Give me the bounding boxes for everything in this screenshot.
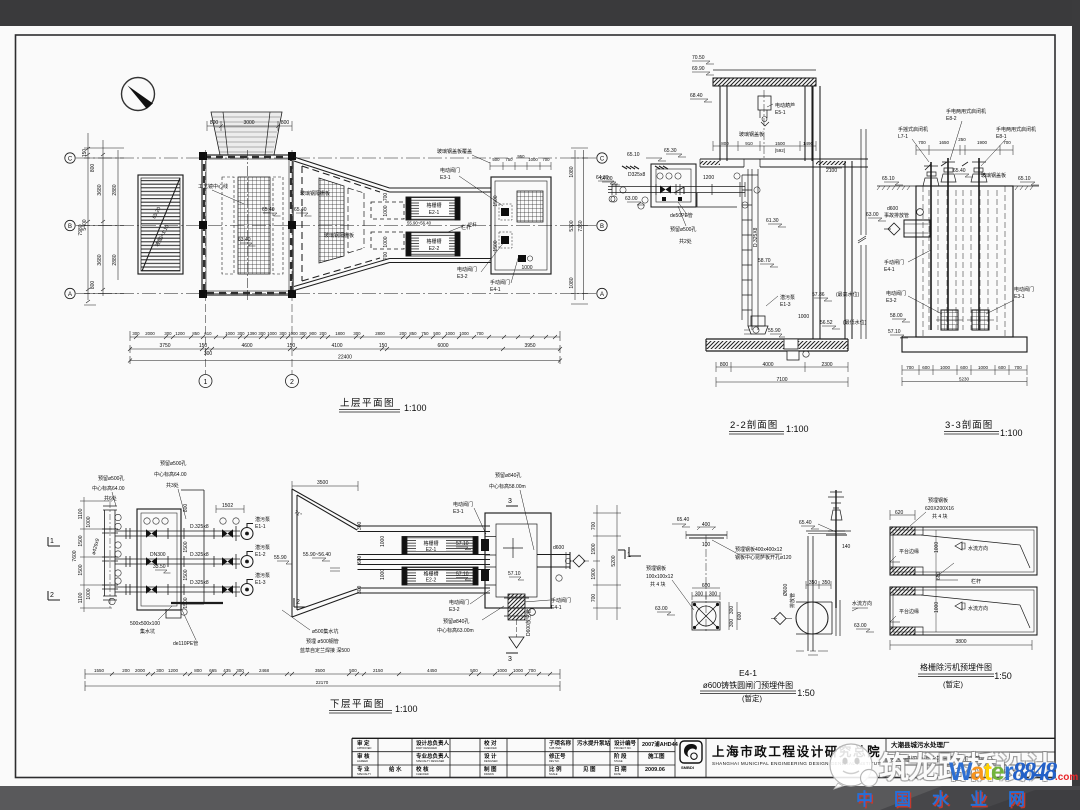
svg-text:DATE: DATE	[614, 772, 621, 776]
svg-text:SPECIALTY: SPECIALTY	[357, 772, 371, 776]
svg-text:预埋钢板: 预埋钢板	[928, 497, 948, 504]
svg-text:56.52: 56.52	[820, 320, 833, 326]
svg-text:AGREED: AGREED	[357, 759, 368, 763]
svg-text:水流方向: 水流方向	[968, 545, 988, 552]
svg-text:65.40: 65.40	[294, 207, 307, 213]
svg-text:850: 850	[192, 331, 200, 336]
svg-text:1000: 1000	[940, 365, 951, 370]
svg-text:制 图: 制 图	[484, 765, 497, 773]
svg-text:3680: 3680	[97, 184, 103, 195]
svg-text:4600: 4600	[241, 343, 252, 349]
svg-text:CHECKED: CHECKED	[484, 746, 497, 750]
svg-text:2300: 2300	[821, 362, 832, 368]
svg-text:1200: 1200	[703, 175, 714, 181]
svg-text:63.00: 63.00	[866, 212, 879, 218]
svg-text:B: B	[600, 224, 604, 230]
svg-text:300: 300	[357, 585, 363, 594]
svg-text:1000: 1000	[380, 536, 386, 547]
svg-text:共6处: 共6处	[104, 495, 117, 502]
svg-text:800: 800	[721, 141, 729, 146]
svg-text:600: 600	[357, 555, 363, 564]
svg-text:600: 600	[960, 365, 968, 370]
svg-text:1000: 1000	[383, 236, 389, 247]
svg-text:专 业: 专 业	[357, 765, 370, 773]
svg-text:3: 3	[508, 656, 512, 663]
svg-text:de110PE管: de110PE管	[173, 640, 198, 647]
svg-text:150: 150	[287, 343, 296, 349]
svg-text:5230: 5230	[959, 377, 970, 382]
svg-text:格栅槽: 格栅槽	[423, 540, 438, 547]
svg-text:850: 850	[409, 331, 417, 336]
svg-text:300: 300	[236, 668, 244, 673]
svg-text:1490: 1490	[803, 141, 814, 146]
svg-text:1200: 1200	[168, 668, 179, 673]
svg-text:600: 600	[922, 365, 930, 370]
svg-text:700: 700	[591, 594, 597, 603]
svg-text:63.00: 63.00	[655, 606, 668, 612]
svg-text:800: 800	[210, 120, 219, 126]
svg-text:5300: 5300	[569, 220, 575, 231]
svg-text:D.325x8: D.325x8	[190, 552, 209, 558]
svg-text:设计总负责人: 设计总负责人	[416, 739, 450, 747]
svg-text:工艺镜中心线: 工艺镜中心线	[198, 183, 228, 190]
svg-text:施工图: 施工图	[648, 752, 665, 760]
svg-text:3500: 3500	[315, 668, 326, 673]
svg-text:55.90: 55.90	[768, 328, 781, 334]
svg-text:100: 100	[702, 542, 711, 548]
svg-text:1000: 1000	[978, 365, 989, 370]
svg-text:4000: 4000	[762, 362, 773, 368]
svg-text:1500: 1500	[775, 141, 786, 146]
svg-text:给 水: 给 水	[389, 765, 402, 773]
svg-text:玻璃钢盖板覆盖: 玻璃钢盖板覆盖	[437, 148, 472, 155]
svg-text:REV NO.: REV NO.	[549, 759, 560, 763]
svg-text:300: 300	[164, 331, 172, 336]
svg-text:1080: 1080	[569, 277, 575, 288]
svg-text:1000: 1000	[445, 331, 455, 336]
svg-text:33.50: 33.50	[153, 564, 166, 570]
svg-text:7360: 7360	[578, 220, 584, 231]
svg-text:d600: d600	[553, 545, 564, 551]
svg-text:A: A	[68, 292, 72, 298]
svg-text:1900: 1900	[977, 140, 988, 145]
svg-text:共3处: 共3处	[166, 482, 179, 489]
svg-text:800: 800	[90, 164, 96, 173]
svg-text:蓝草自定兰焊接 深500: 蓝草自定兰焊接 深500	[300, 647, 350, 654]
svg-text:435: 435	[223, 668, 231, 673]
svg-text:中心标高58.00m: 中心标高58.00m	[489, 483, 526, 490]
svg-text:63.40: 63.40	[238, 237, 251, 243]
svg-text:玻璃钢隔栅板: 玻璃钢隔栅板	[300, 190, 330, 197]
svg-text:手动阀门: 手动阀门	[551, 597, 571, 604]
svg-text:500: 500	[470, 668, 478, 673]
svg-text:手电两用式启闭机: 手电两用式启闭机	[946, 108, 986, 115]
svg-text:平台边缘: 平台边缘	[899, 548, 919, 555]
svg-text:1500: 1500	[78, 535, 84, 546]
svg-text:1550: 1550	[94, 668, 105, 673]
svg-text:64.00: 64.00	[600, 176, 613, 182]
svg-text:1200: 1200	[175, 331, 185, 336]
svg-text:潜污泵: 潜污泵	[255, 544, 270, 551]
svg-text:65.40: 65.40	[953, 168, 966, 174]
svg-text:A: A	[600, 292, 604, 298]
svg-text:E1-3: E1-3	[255, 580, 266, 586]
svg-text:3950: 3950	[524, 343, 535, 349]
svg-text:57.10: 57.10	[508, 571, 521, 577]
svg-text:专业总负责人: 专业总负责人	[416, 752, 450, 760]
svg-text:事故排放管: 事故排放管	[884, 212, 909, 219]
svg-text:APPROVED: APPROVED	[357, 746, 372, 750]
svg-text:55.90: 55.90	[274, 555, 287, 561]
svg-text:3750: 3750	[159, 343, 170, 349]
svg-text:手动闸门: 手动闸门	[884, 259, 904, 266]
svg-text:57.86: 57.86	[812, 292, 825, 298]
svg-text:300: 300	[709, 592, 718, 598]
svg-text:ø600铸铁圆闸门预埋件图: ø600铸铁圆闸门预埋件图	[703, 680, 793, 690]
svg-text:CHECKED: CHECKED	[416, 772, 429, 776]
svg-text:1000: 1000	[459, 331, 469, 336]
svg-text:600: 600	[998, 365, 1006, 370]
svg-text:手电两用式启闭机: 手电两用式启闭机	[996, 126, 1036, 133]
svg-text:300: 300	[357, 521, 363, 530]
svg-text:预埋钢板: 预埋钢板	[646, 565, 666, 572]
svg-text:1900: 1900	[591, 543, 597, 554]
svg-text:200: 200	[319, 331, 327, 336]
svg-text:4100: 4100	[331, 343, 342, 349]
svg-text:D.325x8: D.325x8	[190, 580, 209, 586]
svg-text:700: 700	[383, 252, 389, 261]
svg-text:电动阀门: 电动阀门	[449, 599, 469, 606]
svg-text:2009.06: 2009.06	[645, 767, 665, 773]
svg-text:350: 350	[822, 580, 831, 586]
svg-text:800: 800	[720, 362, 729, 368]
svg-text:3680: 3680	[97, 254, 103, 265]
svg-text:700: 700	[476, 331, 484, 336]
svg-text:排放管: 排放管	[789, 593, 796, 608]
svg-text:70.50: 70.50	[692, 55, 705, 61]
svg-text:1000: 1000	[267, 331, 277, 336]
svg-text:Ø600: Ø600	[783, 584, 789, 596]
svg-text:阶 段: 阶 段	[614, 752, 627, 760]
svg-text:玻璃钢盖板: 玻璃钢盖板	[981, 172, 1006, 179]
svg-text:1500: 1500	[78, 564, 84, 575]
svg-text:1000: 1000	[225, 331, 235, 336]
svg-text:2880: 2880	[112, 184, 118, 195]
svg-text:钢板中心昆萨板开孔ø120: 钢板中心昆萨板开孔ø120	[735, 554, 792, 561]
svg-text:E2-2: E2-2	[429, 246, 440, 252]
svg-text:玻璃钢隔栅板: 玻璃钢隔栅板	[324, 232, 354, 239]
svg-text:格栅槽: 格栅槽	[423, 571, 438, 578]
svg-text:审 核: 审 核	[357, 752, 370, 760]
svg-text:1:100: 1:100	[404, 403, 427, 413]
svg-text:B: B	[68, 224, 72, 230]
svg-text:3800: 3800	[955, 639, 966, 645]
svg-text:2468: 2468	[259, 668, 270, 673]
svg-text:55.90~56.40: 55.90~56.40	[303, 552, 331, 558]
svg-text:预留ø840孔: 预留ø840孔	[443, 618, 469, 625]
svg-text:潜污泵: 潜污泵	[780, 294, 795, 301]
svg-text:1000: 1000	[383, 205, 389, 216]
svg-text:电动阀门: 电动阀门	[886, 290, 906, 297]
svg-text:设计编号: 设计编号	[614, 739, 637, 747]
svg-text:1000: 1000	[798, 314, 809, 320]
svg-text:1:50: 1:50	[994, 671, 1012, 681]
svg-text:1000: 1000	[513, 668, 524, 673]
svg-text:1100: 1100	[78, 508, 84, 519]
svg-text:2880: 2880	[112, 254, 118, 265]
svg-text:300: 300	[729, 606, 735, 615]
svg-text:6000: 6000	[437, 343, 448, 349]
svg-text:1:100: 1:100	[1000, 428, 1023, 438]
svg-text:700: 700	[1014, 365, 1022, 370]
svg-text:E4-1: E4-1	[884, 267, 895, 273]
svg-text:1500: 1500	[493, 195, 499, 206]
svg-text:700: 700	[591, 522, 597, 531]
svg-text:电动阀门: 电动阀门	[440, 167, 460, 174]
svg-text:3: 3	[508, 498, 512, 505]
svg-text:57.10: 57.10	[456, 541, 469, 547]
svg-text:手动阀门: 手动阀门	[490, 279, 510, 286]
svg-text:620: 620	[895, 510, 904, 516]
svg-text:300: 300	[299, 331, 307, 336]
svg-text:比 例: 比 例	[549, 765, 562, 773]
svg-text:2: 2	[50, 592, 54, 599]
svg-text:手摇式启闭机: 手摇式启闭机	[898, 126, 928, 133]
svg-text:预留ø500孔: 预留ø500孔	[670, 226, 696, 233]
svg-text:500x500x100: 500x500x100	[130, 621, 160, 627]
svg-text:1390: 1390	[247, 331, 257, 336]
svg-text:57.10: 57.10	[888, 329, 901, 335]
svg-text:1:100: 1:100	[786, 424, 809, 434]
svg-text:E1-2: E1-2	[255, 552, 266, 558]
svg-text:E8-2: E8-2	[946, 116, 957, 122]
svg-text:预留ø840孔: 预留ø840孔	[495, 472, 521, 479]
svg-text:C: C	[600, 157, 605, 163]
svg-text:65.40: 65.40	[262, 207, 275, 213]
svg-text:E1-3: E1-3	[780, 302, 791, 308]
svg-text:400: 400	[702, 522, 711, 528]
svg-text:2000: 2000	[135, 668, 146, 673]
svg-text:800: 800	[281, 120, 290, 126]
svg-text:格栅除污机预埋件图: 格栅除污机预埋件图	[920, 662, 992, 672]
svg-text:SUB ITEM: SUB ITEM	[549, 746, 561, 750]
svg-text:D.325X8: D.325X8	[753, 227, 759, 247]
svg-text:集水坑: 集水坑	[140, 628, 155, 635]
svg-text:日 期: 日 期	[614, 765, 627, 773]
svg-text:E4-1: E4-1	[551, 605, 562, 611]
svg-text:300: 300	[353, 331, 361, 336]
svg-text:SPECIALTY DESIGNER: SPECIALTY DESIGNER	[416, 759, 444, 763]
svg-text:3-3剖面图: 3-3剖面图	[945, 419, 993, 431]
svg-text:de50PE管: de50PE管	[670, 212, 693, 219]
svg-text:D325x8: D325x8	[628, 172, 645, 178]
svg-text:预留ø500孔: 预留ø500孔	[160, 460, 186, 467]
svg-text:950: 950	[517, 154, 525, 159]
svg-text:ø500集水坑: ø500集水坑	[312, 628, 338, 635]
svg-text:800: 800	[90, 281, 96, 290]
svg-text:150: 150	[199, 343, 208, 349]
svg-text:300: 300	[156, 668, 164, 673]
svg-text:750: 750	[421, 331, 429, 336]
svg-text:1: 1	[50, 538, 54, 545]
svg-text:300: 300	[237, 331, 245, 336]
svg-text:58.70: 58.70	[758, 258, 771, 264]
svg-text:PROJECT NO.: PROJECT NO.	[614, 746, 632, 750]
svg-text:700: 700	[528, 668, 536, 673]
svg-text:500: 500	[492, 157, 500, 162]
svg-text:61.30: 61.30	[766, 218, 779, 224]
svg-text:350: 350	[809, 580, 818, 586]
svg-text:1502: 1502	[222, 503, 233, 509]
svg-text:校 核: 校 核	[416, 765, 429, 773]
svg-text:E2-2: E2-2	[426, 578, 437, 584]
svg-text:63.00: 63.00	[854, 623, 867, 629]
svg-text:7980: 7980	[78, 224, 84, 235]
svg-text:修正号: 修正号	[548, 752, 566, 760]
svg-text:栏杆: 栏杆	[461, 224, 471, 231]
svg-text:1900: 1900	[591, 568, 597, 579]
svg-text:共 4 块: 共 4 块	[932, 513, 948, 520]
svg-text:140: 140	[842, 544, 851, 550]
svg-text:1500: 1500	[183, 541, 189, 552]
svg-text:电动阀门: 电动阀门	[1014, 286, 1034, 293]
svg-text:68.40: 68.40	[690, 93, 703, 99]
svg-text:1000: 1000	[86, 588, 92, 599]
svg-text:1650: 1650	[939, 140, 950, 145]
svg-text:电动阀门: 电动阀门	[457, 266, 477, 273]
svg-text:格栅槽: 格栅槽	[426, 202, 441, 209]
svg-text:2: 2	[290, 379, 294, 386]
svg-text:200: 200	[399, 331, 407, 336]
svg-text:1: 1	[204, 379, 208, 386]
svg-text:1500: 1500	[183, 569, 189, 580]
svg-text:700: 700	[918, 140, 926, 145]
svg-text:65.10: 65.10	[627, 152, 640, 158]
svg-text:620X200X16: 620X200X16	[925, 506, 954, 512]
svg-text:2150: 2150	[373, 668, 384, 673]
svg-text:1000: 1000	[521, 265, 532, 271]
svg-text:E4-1: E4-1	[739, 668, 757, 678]
svg-text:150: 150	[379, 343, 388, 349]
svg-text:55.90~56.40: 55.90~56.40	[407, 221, 432, 226]
svg-text:57.10: 57.10	[456, 572, 469, 578]
svg-text:水流方向: 水流方向	[968, 605, 988, 612]
svg-text:300: 300	[204, 351, 213, 357]
svg-text:共 4 块: 共 4 块	[650, 581, 666, 588]
svg-text:E3-1: E3-1	[1014, 294, 1025, 300]
svg-text:E3-1: E3-1	[440, 175, 451, 181]
svg-text:3500: 3500	[317, 480, 328, 486]
svg-text:玻璃钢盖板: 玻璃钢盖板	[739, 131, 764, 138]
svg-text:910: 910	[745, 141, 753, 146]
svg-text:2100: 2100	[826, 168, 837, 174]
svg-text:300: 300	[132, 331, 140, 336]
svg-text:上层平面图: 上层平面图	[340, 398, 395, 409]
svg-text:63.00: 63.00	[625, 196, 638, 202]
svg-text:65.10: 65.10	[1018, 176, 1031, 182]
svg-text:700: 700	[542, 157, 550, 162]
svg-text:7100: 7100	[776, 377, 787, 383]
svg-text:电动葫芦: 电动葫芦	[775, 102, 795, 109]
svg-text:STAGE: STAGE	[614, 759, 623, 763]
svg-text:1000: 1000	[497, 668, 508, 673]
svg-text:栏杆: 栏杆	[971, 578, 981, 585]
svg-text:1800: 1800	[335, 331, 345, 336]
svg-text:DESIGNED: DESIGNED	[484, 759, 498, 763]
svg-text:PART DESIGNER: PART DESIGNER	[416, 746, 437, 750]
svg-text:500: 500	[349, 668, 357, 673]
svg-text:SCALE: SCALE	[549, 772, 558, 776]
svg-text:2: 2	[296, 599, 300, 606]
svg-text:150: 150	[82, 149, 88, 158]
svg-text:C: C	[68, 157, 73, 163]
svg-text:E1-1: E1-1	[255, 524, 266, 530]
svg-text:设 计: 设 计	[484, 752, 497, 760]
svg-text:E2-1: E2-1	[426, 547, 437, 553]
svg-text:E4-1: E4-1	[490, 287, 501, 293]
svg-text:900: 900	[309, 331, 317, 336]
svg-text:预埋 ø500钢管: 预埋 ø500钢管	[306, 638, 339, 645]
svg-text:250: 250	[958, 137, 966, 142]
svg-text:100x100x12: 100x100x12	[646, 574, 673, 580]
svg-text:69.90: 69.90	[692, 66, 705, 72]
svg-text:1100: 1100	[78, 592, 84, 603]
svg-text:4450: 4450	[427, 668, 438, 673]
svg-text:600: 600	[737, 612, 743, 621]
svg-text:潜污泵: 潜污泵	[255, 516, 270, 523]
svg-text:E3-2: E3-2	[457, 274, 468, 280]
svg-text:SMBDI: SMBDI	[681, 765, 694, 770]
svg-text:3000: 3000	[243, 120, 254, 126]
svg-text:1080: 1080	[569, 166, 575, 177]
svg-text:1000: 1000	[288, 331, 298, 336]
svg-text:校 对: 校 对	[484, 739, 497, 747]
svg-text:L7-1: L7-1	[898, 134, 908, 140]
svg-text:1000: 1000	[528, 157, 538, 162]
svg-text:300: 300	[695, 592, 704, 598]
svg-text:2000: 2000	[145, 331, 155, 336]
svg-text:65.40: 65.40	[799, 520, 812, 526]
svg-text:下层平面图: 下层平面图	[330, 699, 385, 710]
svg-text:600: 600	[936, 571, 942, 580]
svg-text:665: 665	[209, 668, 217, 673]
svg-text:子项名称: 子项名称	[549, 739, 572, 747]
svg-text:平台边缘: 平台边缘	[899, 608, 919, 615]
svg-text:300: 300	[279, 331, 287, 336]
svg-text:[592]: [592]	[775, 148, 785, 153]
svg-text:预留ø500孔: 预留ø500孔	[98, 475, 124, 482]
svg-text:600: 600	[702, 583, 711, 589]
svg-text:中心标高64.00: 中心标高64.00	[154, 471, 187, 478]
svg-text:审 定: 审 定	[357, 739, 370, 747]
svg-text:格栅槽: 格栅槽	[426, 238, 441, 245]
svg-text:(暂定): (暂定)	[943, 679, 963, 689]
svg-text:65.10: 65.10	[882, 176, 895, 182]
svg-text:2007浦AHD44: 2007浦AHD44	[642, 740, 679, 748]
svg-text:65.40: 65.40	[677, 517, 690, 523]
svg-text:(最高水位): (最高水位)	[836, 291, 860, 298]
svg-text:700: 700	[906, 365, 914, 370]
svg-text:200: 200	[122, 668, 130, 673]
svg-text:电动阀门: 电动阀门	[453, 501, 473, 508]
svg-text:污水提升泵站: 污水提升泵站	[577, 739, 611, 747]
svg-text:700: 700	[1003, 140, 1011, 145]
svg-text:5200: 5200	[611, 555, 617, 566]
svg-text:E2-1: E2-1	[429, 210, 440, 216]
svg-text:500: 500	[433, 331, 441, 336]
svg-text:水流方向: 水流方向	[852, 600, 872, 607]
svg-text:E3-1: E3-1	[453, 509, 464, 515]
